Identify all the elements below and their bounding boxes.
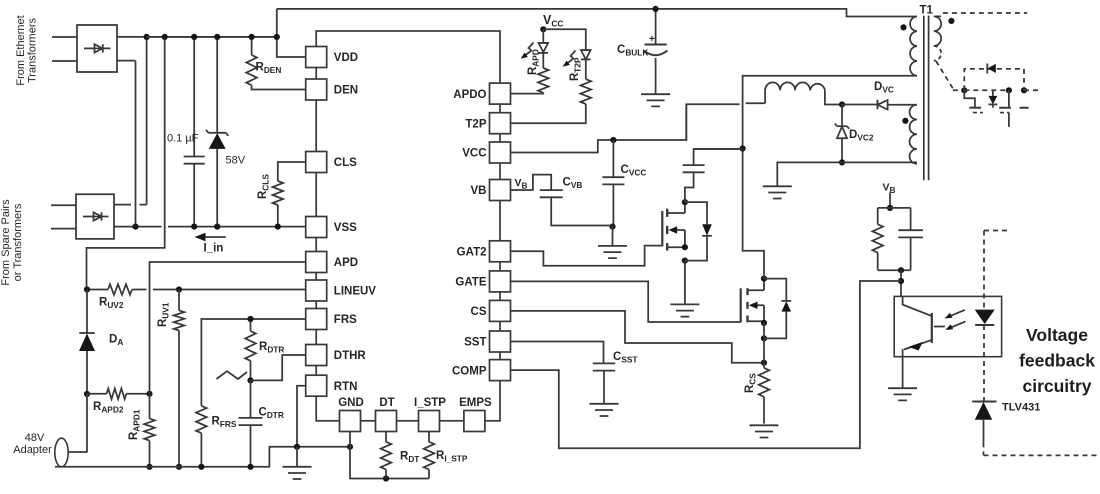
diode DVC — [842, 100, 917, 110]
wire DTHR pin link — [251, 355, 306, 380]
node dot 58V bottom — [214, 224, 220, 230]
wire M1 source to ground — [684, 261, 686, 305]
pin box VSS — [306, 217, 327, 238]
text CDTR — [259, 407, 284, 421]
transistor sync FET left — [964, 90, 983, 112]
svg-text:APD: APD — [334, 257, 358, 269]
ground symbol aux — [763, 186, 792, 198]
capacitor 0.1uF — [184, 37, 205, 227]
transistor M1 (upper MOSFET) — [662, 202, 685, 250]
text RDTR — [259, 341, 284, 355]
pin label COMP — [452, 365, 487, 377]
node dot CVCC top — [610, 137, 616, 143]
svg-text:circuitry: circuitry — [1022, 376, 1091, 396]
text 58V — [226, 155, 246, 167]
pin label VCC — [462, 148, 486, 160]
node dot DA anode junction — [84, 391, 90, 397]
wire SST to CSST — [511, 342, 604, 364]
node dot RDT bottom — [383, 475, 389, 481]
light arrow RAPD — [521, 43, 534, 59]
phase dot primary — [900, 24, 906, 30]
node dot UV branch — [162, 34, 168, 40]
optocoupler U2 box — [894, 296, 1001, 356]
text CVCC — [621, 164, 647, 178]
pin label DT — [379, 397, 394, 409]
diode sync middle — [989, 90, 998, 107]
text RT2P — [569, 57, 583, 81]
node dot VDD riser — [274, 34, 280, 40]
text RDT — [400, 451, 419, 465]
svg-text:Transformers: Transformers — [27, 18, 39, 83]
capacitor CVB — [540, 190, 613, 225]
resistor RDTR — [245, 319, 256, 380]
optocoupler LED — [975, 310, 995, 325]
text DVC2 — [849, 129, 874, 143]
capacitor CDTR — [239, 380, 263, 466]
ground symbol RTN — [283, 447, 312, 479]
resistor RCLS — [272, 162, 305, 227]
light arrow RT2P — [563, 51, 576, 67]
pin box GATE — [490, 271, 511, 292]
LED RT2P chain to T2P — [511, 29, 592, 123]
wire primary bottom to M2 drain — [743, 76, 917, 279]
wire FRS pin with RFRS — [196, 319, 305, 467]
node dot RUV1 bottom — [176, 464, 182, 470]
pin label APD — [334, 257, 358, 269]
text 0.1 uF — [167, 133, 199, 145]
pin box GND — [340, 411, 361, 432]
pin box I_STP — [419, 411, 440, 432]
resistor RCS — [759, 338, 770, 423]
IC TPS23754 body outline — [316, 31, 500, 421]
diode sync bypass — [987, 64, 996, 74]
svg-text:From Ethernet: From Ethernet — [15, 15, 27, 85]
svg-text:58V: 58V — [226, 155, 246, 167]
pin label VDD — [334, 52, 358, 64]
RC network VB bottom rail — [878, 269, 911, 271]
diode bridge B1 (Ethernet pairs) — [77, 25, 117, 72]
pin box APDO — [490, 83, 511, 104]
phase dot secondary — [948, 18, 954, 24]
wire opto collector feed — [900, 270, 902, 296]
pin box VB — [490, 180, 511, 201]
node dot bridge2+ on VDD rail — [144, 34, 150, 40]
diode DA (adapter ORing) — [79, 290, 95, 395]
svg-text:LINEUV: LINEUV — [334, 286, 377, 298]
svg-text:GATE: GATE — [455, 277, 486, 289]
pin label DEN — [334, 85, 358, 97]
node dot 58V top — [214, 34, 220, 40]
text RDEN — [256, 62, 282, 76]
pin label VSS — [334, 222, 357, 234]
ground symbol CVCC — [598, 227, 627, 259]
resistor RUV1 — [174, 290, 185, 467]
wire RTN to ground — [297, 386, 306, 447]
svg-text:TLV431: TLV431 — [1002, 402, 1040, 414]
wire M2 source link — [763, 323, 765, 339]
svg-text:0.1 µF: 0.1 µF — [167, 133, 199, 145]
pin box APD — [306, 252, 327, 273]
pin label GATE — [455, 277, 486, 289]
text DA — [109, 334, 123, 348]
wire 48V top rail — [277, 9, 917, 17]
transistor sync FET right — [999, 90, 1029, 127]
svg-text:FRS: FRS — [334, 314, 357, 326]
wire VCC pin to VCC net — [511, 104, 687, 152]
svg-text:feedback: feedback — [1019, 351, 1095, 371]
node dot sync rect b — [1006, 87, 1012, 93]
node dot RDEN top — [249, 34, 255, 40]
text TLV431 — [1002, 402, 1040, 414]
pin box CLS — [306, 152, 327, 173]
text VCC net — [543, 13, 563, 29]
pin box VCC — [490, 142, 511, 163]
svg-text:or Transformers: or Transformers — [12, 203, 24, 281]
node dot RUV1 top — [176, 286, 182, 292]
inductor VCC feed — [765, 82, 842, 104]
svg-text:VB: VB — [471, 185, 487, 197]
svg-text:Adapter: Adapter — [13, 444, 52, 456]
pin label GND — [338, 397, 364, 409]
transformer T1 aux winding — [910, 105, 917, 164]
zener diode 58V — [206, 37, 228, 227]
wire LINEUV line with RUV2 (hop at x=149.5) — [87, 284, 306, 295]
node dot 0.1uF top — [191, 34, 197, 40]
pin label CLS — [334, 157, 357, 169]
text VB net — [515, 177, 528, 191]
ground symbol RCS — [750, 425, 779, 437]
svg-text:Voltage: Voltage — [1026, 325, 1088, 345]
text RAPD2 — [93, 401, 124, 415]
node dot M2 drain — [761, 276, 767, 282]
svg-text:From Spare Pairs: From Spare Pairs — [0, 199, 12, 286]
text 48V Adapter — [13, 432, 52, 456]
svg-text:I_in: I_in — [204, 243, 224, 255]
node dot VB network top — [887, 205, 893, 211]
text T1 — [920, 5, 934, 17]
svg-text:CLS: CLS — [334, 157, 357, 169]
wire bridge1 inputs — [52, 37, 77, 61]
node dot COMP junction — [898, 278, 904, 284]
svg-text:VDD: VDD — [334, 52, 358, 64]
dashed bypass diode branch — [964, 69, 1024, 90]
wire VB stub — [889, 193, 891, 208]
node dot M2 source a — [761, 320, 767, 326]
svg-text:SST: SST — [464, 337, 486, 349]
text RAPD — [527, 49, 541, 75]
ground symbol opto — [888, 357, 917, 401]
node dot RDTR top on FRS line — [247, 316, 253, 322]
pin box SST — [490, 331, 511, 352]
text VB right — [883, 182, 896, 196]
text + CBULK — [617, 34, 655, 58]
text RUV1 — [157, 302, 171, 327]
capacitor CBULK (polarized) — [644, 9, 668, 94]
node dot CBULK top — [653, 6, 659, 12]
pin label APDO — [453, 89, 486, 101]
wire aux bottom rail — [777, 162, 917, 186]
node dot VCC LED junction — [540, 26, 546, 32]
text RUV2 — [99, 297, 124, 311]
svg-text:+: + — [649, 34, 655, 45]
transformer T1 secondary winding — [934, 16, 941, 60]
optocoupler light arrows — [934, 310, 966, 330]
node dot RAPD2 right — [146, 391, 152, 397]
pin label DTHR — [334, 350, 367, 362]
wire VDD top rail — [147, 36, 277, 38]
svg-text:GND: GND — [338, 397, 364, 409]
node dot sync rect a — [961, 87, 967, 93]
ground symbol CBULK — [641, 94, 670, 106]
node dot M1 source b — [682, 258, 688, 264]
ground symbol CSST — [590, 404, 619, 416]
LED RAPD chain to APDO — [511, 29, 549, 93]
node dot RFRS bottom — [198, 464, 204, 470]
wire VCC feed line (hops over drain line) — [686, 103, 765, 140]
node dot RDTR bottom — [247, 377, 253, 383]
node dot RUV2 left — [84, 286, 90, 292]
text RAPD1 — [128, 409, 142, 440]
pin box DEN — [306, 79, 327, 100]
text Voltage feedback circuitry — [1019, 325, 1095, 396]
pin label CS — [471, 306, 487, 318]
pin label GAT2 — [457, 247, 487, 259]
svg-text:VCC: VCC — [462, 148, 486, 160]
resistor RDEN — [246, 37, 305, 90]
diode M2 body — [764, 279, 791, 339]
svg-text:RTN: RTN — [334, 381, 358, 393]
pin box CS — [490, 300, 511, 321]
svg-text:T2P: T2P — [465, 118, 486, 130]
text RCLS — [257, 174, 271, 199]
transistor M2 (main switching MOSFET) — [741, 279, 764, 323]
pin box T2P — [490, 113, 511, 134]
text From Ethernet Transformers — [15, 15, 39, 85]
resistor VB network — [872, 208, 883, 270]
wire bridge1 + output to VDD rail — [117, 36, 277, 38]
capacitor VB network — [898, 208, 923, 270]
pin label FRS — [334, 314, 357, 326]
optocoupler phototransistor — [903, 296, 932, 356]
text CVB — [563, 177, 583, 191]
wire VB pin to CVB — [511, 175, 552, 191]
dashed wire secondary bottom — [936, 61, 964, 90]
capacitor CVCC — [602, 140, 624, 227]
pin label EMPS — [459, 397, 492, 409]
resistor RDT — [381, 432, 392, 479]
svg-text:CS: CS — [471, 306, 487, 318]
text DVC — [874, 81, 894, 95]
dashed feedback net vertical — [984, 231, 1008, 402]
pin label LINEUV — [334, 286, 377, 298]
ground symbol M1 — [670, 304, 699, 316]
wire CS pin to RCS — [511, 311, 765, 363]
node dot RCLS bottom — [275, 224, 281, 230]
wire bridge1 - output down — [117, 61, 136, 227]
resistor RI_STP — [424, 432, 435, 479]
wire snubber cap link — [694, 148, 743, 150]
capacitor M1 snubber — [683, 149, 743, 202]
transformer T1 primary winding — [910, 16, 917, 75]
pin label RTN — [334, 381, 358, 393]
wire APD pin to divider — [150, 262, 306, 394]
node dot M1 source a — [682, 244, 688, 250]
pin label SST — [464, 337, 486, 349]
node dot M1 drain — [682, 199, 688, 205]
pin label T2P — [465, 118, 486, 130]
pin box DT — [376, 411, 397, 432]
pin box COMP — [490, 360, 511, 381]
text RCS — [744, 373, 758, 393]
node dot CDTR bottom — [247, 464, 253, 470]
node dot RAPD1 bottom — [146, 464, 152, 470]
text CSST — [613, 351, 637, 365]
svg-text:EMPS: EMPS — [459, 397, 492, 409]
text RI_STP — [436, 450, 468, 464]
svg-text:48V: 48V — [25, 432, 45, 444]
sawtooth ramp symbol — [217, 371, 248, 379]
resistor RAPD1 — [144, 394, 155, 467]
svg-text:COMP: COMP — [452, 365, 487, 377]
pin label VB — [471, 185, 487, 197]
wire bottom return rail — [55, 447, 350, 467]
wire adapter to DA — [68, 394, 87, 452]
node dot aux return — [839, 159, 845, 165]
node dot M2 source b — [761, 335, 767, 341]
dashed wire sync mid — [964, 89, 1038, 91]
node dot snubber tap — [740, 145, 746, 151]
wire VSS rail (bridge2 - output to VSS pin, hop at x=164.7) — [114, 226, 306, 228]
transformer T1 core — [924, 16, 929, 181]
wire GATE to M2 gate — [511, 281, 741, 322]
capacitor CSST — [593, 363, 615, 403]
text I_in — [204, 243, 224, 255]
wire bridge2 inputs — [51, 205, 76, 228]
svg-text:T1: T1 — [920, 5, 934, 17]
pin box DTHR — [306, 345, 327, 366]
dashed wire secondary top — [936, 13, 1027, 16]
pin box VDD — [306, 47, 327, 68]
wire riser to 48V top rail and VDD pin — [277, 9, 306, 57]
svg-text:DEN: DEN — [334, 85, 358, 97]
node dot CS tap — [761, 360, 767, 366]
pin box GAT2 — [490, 241, 511, 262]
zener diode DVC2 — [835, 105, 849, 163]
wire bridge2 + output up to VDD rail (hops over bridge1 wire) — [114, 37, 147, 205]
node dot RTN ground junction — [294, 444, 300, 450]
text RFRS — [212, 416, 237, 430]
node dot DVC junction — [839, 101, 845, 107]
RC network VB top rail — [878, 207, 911, 209]
pin box RTN — [306, 375, 327, 396]
wire GND pin down — [350, 432, 429, 479]
text From Spare Pairs or Transformers — [0, 199, 24, 286]
dashed feedback net bottom — [984, 442, 1100, 455]
svg-text:GAT2: GAT2 — [457, 247, 487, 259]
node dot CVCC bottom — [609, 224, 615, 230]
node dot VB network bottom — [898, 267, 904, 273]
node dot sync rect c — [1021, 87, 1027, 93]
wire COMP to opto — [511, 281, 902, 448]
svg-text:APDO: APDO — [453, 89, 486, 101]
resistor RAPD2 — [87, 389, 150, 400]
connector 48V adapter — [55, 438, 68, 467]
diode M1 body — [685, 202, 712, 261]
current arrow I_in — [195, 233, 226, 241]
svg-text:DT: DT — [379, 397, 394, 409]
pin box FRS — [306, 309, 327, 330]
pin box EMPS — [464, 411, 485, 432]
wire GAT2 to M1 gate — [511, 246, 663, 266]
svg-text:I_STP: I_STP — [414, 397, 446, 409]
shunt regulator TLV431 — [972, 402, 996, 443]
wire line to lower-left UV network — [87, 37, 165, 290]
svg-text:DTHR: DTHR — [334, 350, 367, 362]
phase dot aux — [902, 118, 908, 124]
pin label I_STP — [414, 397, 446, 409]
pin box LINEUV — [306, 280, 327, 301]
node dot GND rail junction — [347, 444, 353, 450]
svg-text:VSS: VSS — [334, 222, 357, 234]
node dot 0.1uF bottom — [191, 224, 197, 230]
node dot bridge1- on VSS rail — [132, 224, 138, 230]
diode bridge B2 (spare pairs) — [76, 194, 114, 239]
